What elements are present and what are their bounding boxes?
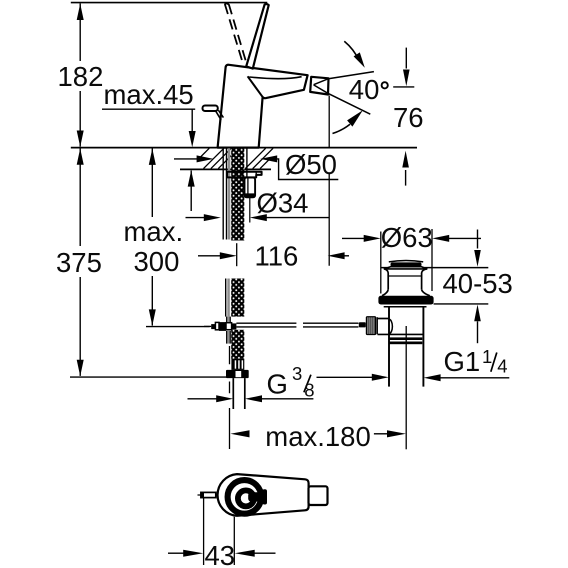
svg-text:max.45: max.45 bbox=[104, 79, 194, 110]
svg-text:76: 76 bbox=[393, 102, 424, 133]
svg-text:max.180: max.180 bbox=[265, 421, 370, 452]
svg-text:300: 300 bbox=[134, 246, 180, 277]
svg-text:Ø34: Ø34 bbox=[257, 187, 309, 218]
svg-text:G1: G1 bbox=[444, 346, 481, 377]
svg-text:182: 182 bbox=[58, 61, 104, 92]
svg-text:40: 40 bbox=[349, 74, 380, 105]
svg-text:4: 4 bbox=[497, 355, 507, 376]
svg-text:40-53: 40-53 bbox=[443, 268, 513, 299]
svg-text:max.: max. bbox=[124, 216, 184, 247]
svg-text:375: 375 bbox=[56, 247, 102, 278]
svg-text:1: 1 bbox=[482, 346, 492, 367]
svg-text:Ø63: Ø63 bbox=[381, 222, 433, 253]
svg-text:3: 3 bbox=[292, 363, 302, 384]
svg-text:116: 116 bbox=[255, 241, 299, 272]
svg-text:43: 43 bbox=[205, 540, 236, 568]
svg-text:8: 8 bbox=[304, 379, 314, 400]
svg-text:G: G bbox=[267, 369, 288, 400]
